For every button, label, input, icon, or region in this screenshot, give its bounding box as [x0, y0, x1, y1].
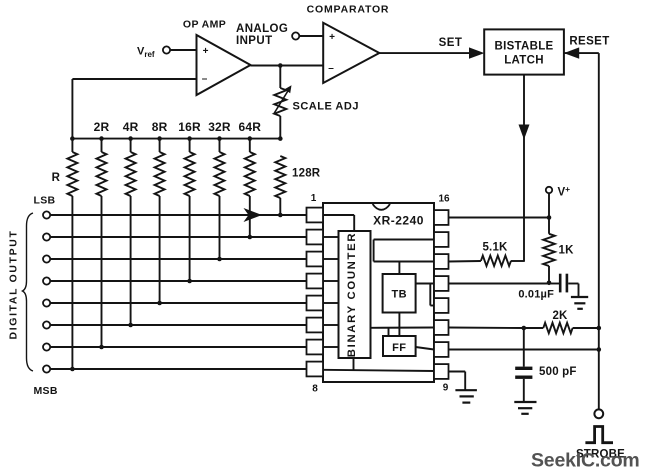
svg-text:R: R — [52, 172, 61, 184]
wire FF top-left stub — [388, 328, 390, 336]
wire 500pF top — [523, 328, 525, 367]
wire output row MSB — [50, 368, 306, 370]
FF box — [383, 336, 416, 356]
wire pin 5 to counter — [323, 302, 339, 304]
capacitor 0.01uF — [549, 283, 559, 285]
svg-text:1: 1 — [311, 193, 317, 204]
wire Vref to op-amp noninverting input — [170, 49, 196, 51]
svg-text:OP AMP: OP AMP — [183, 19, 226, 31]
wire counter to pin 15 — [374, 239, 434, 241]
svg-text:32R: 32R — [208, 120, 231, 134]
node bus junction 128R — [278, 136, 283, 141]
svg-text:5.1K: 5.1K — [482, 242, 508, 254]
node V+ / pin16 — [547, 215, 552, 220]
wire FF to pin 10 — [416, 347, 434, 350]
node rail / pin 10 — [597, 347, 602, 352]
pin 16 square — [434, 210, 449, 225]
node bus junction 16R — [187, 136, 192, 141]
wire node to 2K — [524, 327, 544, 329]
output terminal bit 4 — [43, 277, 50, 284]
svg-text:128R: 128R — [292, 168, 321, 180]
node bus junction 8R — [157, 136, 162, 141]
svg-text:8: 8 — [312, 384, 318, 395]
comparator U2 — [323, 23, 379, 83]
TB box — [398, 262, 400, 275]
svg-text:8R: 8R — [152, 120, 168, 134]
wire counter to pin 11 — [371, 327, 435, 329]
node 1K / pin 13 / cap — [547, 281, 552, 286]
resistor 32R — [219, 139, 221, 152]
resistor 2K — [543, 323, 572, 333]
ground (0.01uF) — [571, 296, 588, 298]
wire V+ down — [548, 193, 550, 234]
resistor 2R — [101, 139, 103, 152]
svg-text:LSB: LSB — [34, 195, 56, 207]
resistor 4R — [130, 139, 132, 152]
svg-text:2R: 2R — [94, 120, 110, 134]
wire output row bit 2 — [50, 236, 306, 238]
RESET arrowhead — [564, 47, 579, 58]
wire feedback down to R ladder bus — [71, 79, 73, 139]
svg-text:0.01µF: 0.01µF — [518, 289, 554, 301]
capacitor 500pF — [515, 367, 532, 370]
wiper arrow on LSB row — [244, 208, 263, 222]
wire op-amp output to comparator inverting input — [251, 65, 324, 67]
wire latch output down — [523, 75, 525, 261]
probe terminal — [594, 409, 603, 418]
output terminal bit 5 — [43, 299, 50, 306]
svg-text:FF: FF — [392, 342, 406, 354]
node 4R to output row — [128, 323, 133, 328]
node bus junction 64R — [248, 136, 253, 141]
wire analog input to comparator noninverting input — [299, 35, 323, 37]
wire right rail (RESET / strobe) — [598, 53, 600, 409]
wire 2K to rail — [573, 327, 599, 329]
node R to output row — [70, 367, 75, 372]
wire pin 10 to rail — [449, 349, 599, 351]
pin 1 square — [307, 208, 324, 223]
svg-text:16R: 16R — [178, 120, 201, 134]
wire RESET rail to latch — [564, 52, 599, 54]
svg-text:INPUT: INPUT — [236, 35, 273, 47]
wire output row bit 7 — [50, 346, 306, 348]
wire TB bottom to FF — [398, 313, 400, 337]
SET arrowhead — [469, 47, 484, 58]
svg-text:COMPARATOR: COMPARATOR — [307, 4, 390, 16]
output terminal LSB — [43, 211, 50, 218]
node 2R to output row — [99, 345, 104, 350]
pin 8 square — [307, 362, 324, 377]
pin 13 square — [434, 276, 449, 291]
potentiometer SCALE ADJ — [274, 88, 286, 116]
op-amp U1 — [197, 35, 251, 95]
svg-text:–: – — [202, 74, 208, 85]
svg-text:ANALOG: ANALOG — [236, 23, 288, 35]
wire comparator output (SET) to bistable latch — [379, 52, 470, 54]
wire pin 2 to counter — [323, 236, 339, 238]
svg-text:RESET: RESET — [569, 36, 609, 48]
pin 12 square — [434, 298, 449, 313]
output terminal MSB — [43, 365, 50, 372]
pin 5 square — [307, 296, 324, 311]
svg-text:BISTABLE: BISTABLE — [494, 41, 553, 53]
wire pin 13 branch to pin 12 — [429, 284, 431, 306]
resistor 128R — [275, 156, 285, 198]
pin 7 square — [307, 340, 324, 355]
binary counter box — [339, 231, 371, 358]
wire pin 6 to counter — [323, 324, 339, 326]
node 16R to output row — [187, 279, 192, 284]
svg-text:BINARY COUNTER: BINARY COUNTER — [346, 232, 358, 357]
svg-text:64R: 64R — [238, 120, 261, 134]
node rail / 2K — [597, 326, 602, 331]
node bus junction 2R — [99, 136, 104, 141]
wire pin 7 to counter — [323, 346, 339, 348]
wire pin 3 to counter — [323, 258, 339, 260]
node 128R to LSB row — [278, 213, 283, 218]
svg-text:1K: 1K — [559, 245, 575, 257]
bistable latch U3 — [484, 29, 564, 74]
svg-text:4R: 4R — [123, 120, 139, 134]
svg-text:XR-2240: XR-2240 — [373, 214, 424, 228]
output terminal bit 6 — [43, 321, 50, 328]
pin 14 square — [434, 254, 449, 269]
node pin11 / 2K / 500pF — [522, 326, 527, 331]
wire pin 8 to pin 9 (internal) — [323, 370, 434, 371]
XR-2240 chip body — [323, 203, 434, 382]
node 32R to output row — [217, 257, 222, 262]
svg-text:+: + — [329, 32, 335, 43]
wire output row bit 5 — [50, 302, 306, 304]
wire to pin 14 / TB top — [374, 261, 434, 263]
wire pin 13 row — [449, 283, 550, 285]
svg-text:–: – — [328, 63, 334, 74]
svg-text:SET: SET — [439, 37, 463, 49]
digital output brace — [23, 213, 34, 371]
probe pulse symbol — [585, 427, 613, 443]
ground (pin 9) — [455, 389, 477, 391]
svg-text:DIGITAL OUTPUT: DIGITAL OUTPUT — [8, 230, 19, 340]
svg-text:LATCH: LATCH — [504, 55, 544, 67]
pin 10 square — [434, 342, 449, 357]
svg-text:+: + — [203, 46, 209, 57]
node bus junction 32R — [217, 136, 222, 141]
resistor 16R — [189, 139, 191, 152]
svg-text:TB: TB — [391, 289, 407, 301]
node bus junction 4R — [128, 136, 133, 141]
resistor 5.1K — [481, 256, 511, 266]
node 64R to output row — [248, 235, 253, 240]
svg-text:SeekIC.com: SeekIC.com — [531, 450, 640, 472]
wire 1K to pin13 node — [548, 266, 550, 284]
wire pot to bus — [279, 116, 281, 139]
wire counter bottom tap — [353, 358, 355, 370]
output terminal bit 2 — [43, 233, 50, 240]
output terminal bit 7 — [43, 343, 50, 350]
chip notch — [373, 204, 390, 210]
pin 6 square — [307, 318, 324, 333]
V+ terminal — [546, 187, 552, 193]
wire pin 16 to V+ node — [449, 217, 550, 219]
wire pin 1 to counter top — [323, 214, 354, 216]
resistor R — [71, 139, 73, 152]
svg-text:SCALE ADJ: SCALE ADJ — [293, 101, 359, 113]
wire pin 11 to 2K node — [449, 327, 524, 330]
Vref input terminal — [163, 46, 170, 53]
wire TB to pin 13 — [416, 283, 434, 285]
svg-text:9: 9 — [443, 383, 449, 394]
analog input terminal — [292, 32, 299, 39]
pin 3 square — [307, 252, 324, 267]
wire output row bit 6 — [50, 324, 306, 326]
wire pin 4 to counter — [323, 280, 339, 282]
wire pin 14 to 5.1K — [449, 260, 481, 263]
pin 2 square — [307, 230, 324, 245]
svg-text:500 pF: 500 pF — [539, 366, 577, 378]
svg-text:MSB: MSB — [34, 385, 58, 397]
svg-text:2K: 2K — [552, 310, 568, 322]
pin 15 square — [434, 232, 449, 247]
wire node to scale pot — [279, 66, 281, 89]
wire output row bit 3 — [50, 258, 306, 260]
wire op-amp inverting feedback (left) — [72, 78, 196, 80]
wire output row LSB — [50, 214, 306, 216]
wire output row bit 4 — [50, 280, 306, 282]
wire pin 9 to ground — [449, 371, 466, 373]
node 8R to output row — [157, 301, 162, 306]
ground (500pF) — [514, 401, 536, 403]
pin 4 square — [307, 274, 324, 289]
resistor 8R — [159, 139, 161, 152]
pin 11 square — [434, 320, 449, 335]
ladder bus wire — [72, 138, 280, 140]
latch output arrowhead — [519, 125, 530, 140]
pin 9 square — [434, 364, 449, 379]
node op-amp output / scale pot — [278, 63, 283, 68]
resistor 1K — [543, 234, 555, 266]
node bus junction R — [70, 136, 75, 141]
wire 5.1K to latch drop — [511, 260, 525, 262]
scale pot arrow — [274, 90, 289, 114]
svg-text:16: 16 — [438, 194, 450, 205]
resistor 64R — [249, 139, 251, 152]
output terminal bit 3 — [43, 255, 50, 262]
